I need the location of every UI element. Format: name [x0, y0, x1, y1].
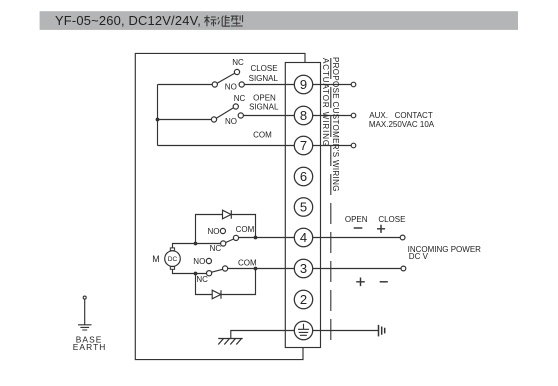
wire: switch bus vertical — [157, 85, 159, 146]
svg-text:NO: NO — [225, 117, 237, 126]
aux contact point 7 — [351, 143, 356, 148]
switch S1 pole wire — [158, 84, 213, 86]
svg-text:5: 5 — [300, 200, 307, 215]
svg-text:OPEN: OPEN — [345, 215, 368, 224]
terminal 7 — [294, 136, 312, 154]
terminal strip outline — [285, 63, 320, 348]
svg-text:3: 3 — [300, 261, 307, 276]
junction: bus to S2 pole — [156, 118, 160, 122]
wire: NO contact S1 to terminal 9 — [244, 84, 294, 86]
svg-text:9: 9 — [300, 77, 307, 92]
svg-text:PROPOSE CUSTOMER'S WIRING: PROPOSE CUSTOMER'S WIRING — [331, 57, 340, 192]
svg-text:AUX. CONTACT: AUX. CONTACT — [369, 111, 433, 120]
motor M — [165, 251, 181, 267]
svg-text:8: 8 — [300, 108, 307, 123]
hatched earth bar — [218, 338, 243, 340]
header CJK glyph 标 — [204, 15, 216, 26]
wire: earth terminal to hatched earth — [231, 331, 294, 339]
switch S2 arm to NC — [216, 108, 233, 118]
wire: NO contact S2 to terminal 8 — [243, 115, 294, 117]
switch S1 NO contact — [239, 82, 244, 87]
svg-text:NC: NC — [196, 275, 208, 284]
junction: upper loop tap — [194, 242, 198, 246]
header bar — [40, 11, 518, 30]
svg-text:DC: DC — [168, 256, 178, 263]
diode D1 — [223, 210, 232, 219]
switch S2 pole wire — [158, 119, 212, 121]
svg-text:DC V: DC V — [409, 252, 429, 261]
switch S1 NC contact — [234, 69, 239, 74]
header CJK glyph 型 — [231, 15, 243, 26]
switch S4 NC contact — [207, 271, 212, 276]
junction: lower COM tap — [254, 267, 258, 271]
svg-text:OPEN: OPEN — [253, 94, 276, 103]
terminal 2 — [294, 290, 312, 308]
switch S1 pole contact — [212, 82, 217, 87]
header CJK glyph 准 — [218, 15, 230, 26]
motor brush bottom — [170, 267, 174, 270]
svg-text:NO: NO — [225, 83, 237, 92]
svg-text:7: 7 — [300, 138, 307, 153]
svg-text:NO: NO — [208, 227, 220, 236]
terminal 6 — [294, 167, 312, 185]
svg-text:CLOSE: CLOSE — [250, 64, 277, 73]
junction: lower loop tap — [194, 272, 198, 276]
switch S4 NO contact — [206, 258, 211, 263]
hatched earth strokes — [218, 339, 241, 345]
wire: terminal 8 to aux contact — [313, 115, 352, 117]
wire: terminal 9 to aux contact — [313, 84, 352, 86]
wire: terminal 7 to aux contact — [313, 145, 352, 147]
switch S3 NO contact — [220, 228, 225, 233]
wire: terminal 3 to incoming power — [313, 268, 401, 270]
polarity plus (close) — [377, 225, 385, 233]
polarity minus (open) — [354, 227, 363, 229]
switch S2 pole contact — [211, 117, 216, 122]
terminal 5 — [294, 198, 312, 216]
svg-text:MAX.250VAC 10A: MAX.250VAC 10A — [369, 120, 435, 129]
svg-text:COM: COM — [238, 259, 257, 268]
wire: earth terminal to chassis earth — [313, 330, 378, 332]
lower diode loop — [196, 269, 256, 295]
svg-text:YF-05~260, DC12V/24V,: YF-05~260, DC12V/24V, — [55, 13, 201, 28]
incoming power point 4 — [400, 235, 405, 240]
junction: upper COM tap — [254, 236, 258, 240]
aux contact point 8 — [351, 113, 356, 118]
base earth pin — [83, 296, 86, 299]
svg-text:M: M — [152, 254, 159, 264]
switch S3 COM contact — [233, 235, 238, 240]
base earth stem — [84, 299, 86, 324]
incoming power point 3 — [401, 266, 406, 271]
switch S4 arm — [212, 269, 223, 272]
switch S3 NC contact — [221, 241, 226, 246]
svg-text:2: 2 — [300, 292, 307, 307]
svg-text:COM: COM — [253, 131, 272, 140]
motor brush top — [170, 248, 174, 251]
svg-text:NC: NC — [210, 244, 222, 253]
polarity minus (lower) — [380, 281, 388, 283]
svg-text:6: 6 — [300, 169, 307, 184]
wire: S4 COM to terminal 3 — [228, 268, 295, 270]
terminal 8 — [294, 106, 312, 124]
svg-text:NC: NC — [232, 58, 244, 67]
svg-text:ACTUATOR WIRING: ACTUATOR WIRING — [321, 58, 330, 147]
switch S1 arm to NC — [217, 73, 235, 83]
svg-text:NO: NO — [193, 257, 205, 266]
polarity plus (lower) — [356, 278, 365, 287]
switch S4 COM contact — [223, 266, 228, 271]
svg-text:4: 4 — [300, 230, 307, 245]
switch S2 NC contact — [233, 104, 238, 109]
customer wiring boundary (dashed) — [330, 58, 332, 347]
diode D2 — [212, 290, 221, 299]
svg-text:SIGNAL: SIGNAL — [249, 103, 279, 112]
svg-text:SIGNAL: SIGNAL — [249, 74, 279, 83]
wire: S3 COM to terminal 4 — [239, 237, 295, 239]
aux contact point 9 — [351, 82, 356, 87]
terminal 9 — [294, 75, 312, 93]
wire: motor bottom to NC (lower) — [173, 269, 207, 273]
wire: COM bus to terminal 7 — [158, 145, 295, 147]
svg-text:CLOSE: CLOSE — [378, 215, 405, 224]
upper diode loop — [196, 215, 256, 244]
svg-text:COM: COM — [236, 225, 255, 234]
actuator enclosure box — [135, 53, 305, 359]
svg-text:NC: NC — [234, 94, 246, 103]
switch S3 arm — [226, 239, 234, 243]
terminal 3 — [294, 259, 312, 277]
base earth bars — [78, 325, 92, 330]
wire: terminal 4 to incoming power — [313, 237, 401, 239]
wire: motor top to NC (upper) — [173, 244, 221, 248]
chassis earth bars — [379, 325, 385, 337]
switch S2 NO contact — [238, 113, 243, 118]
svg-text:EARTH: EARTH — [73, 342, 107, 352]
terminal 4 — [294, 228, 312, 246]
earth terminal — [294, 321, 312, 339]
